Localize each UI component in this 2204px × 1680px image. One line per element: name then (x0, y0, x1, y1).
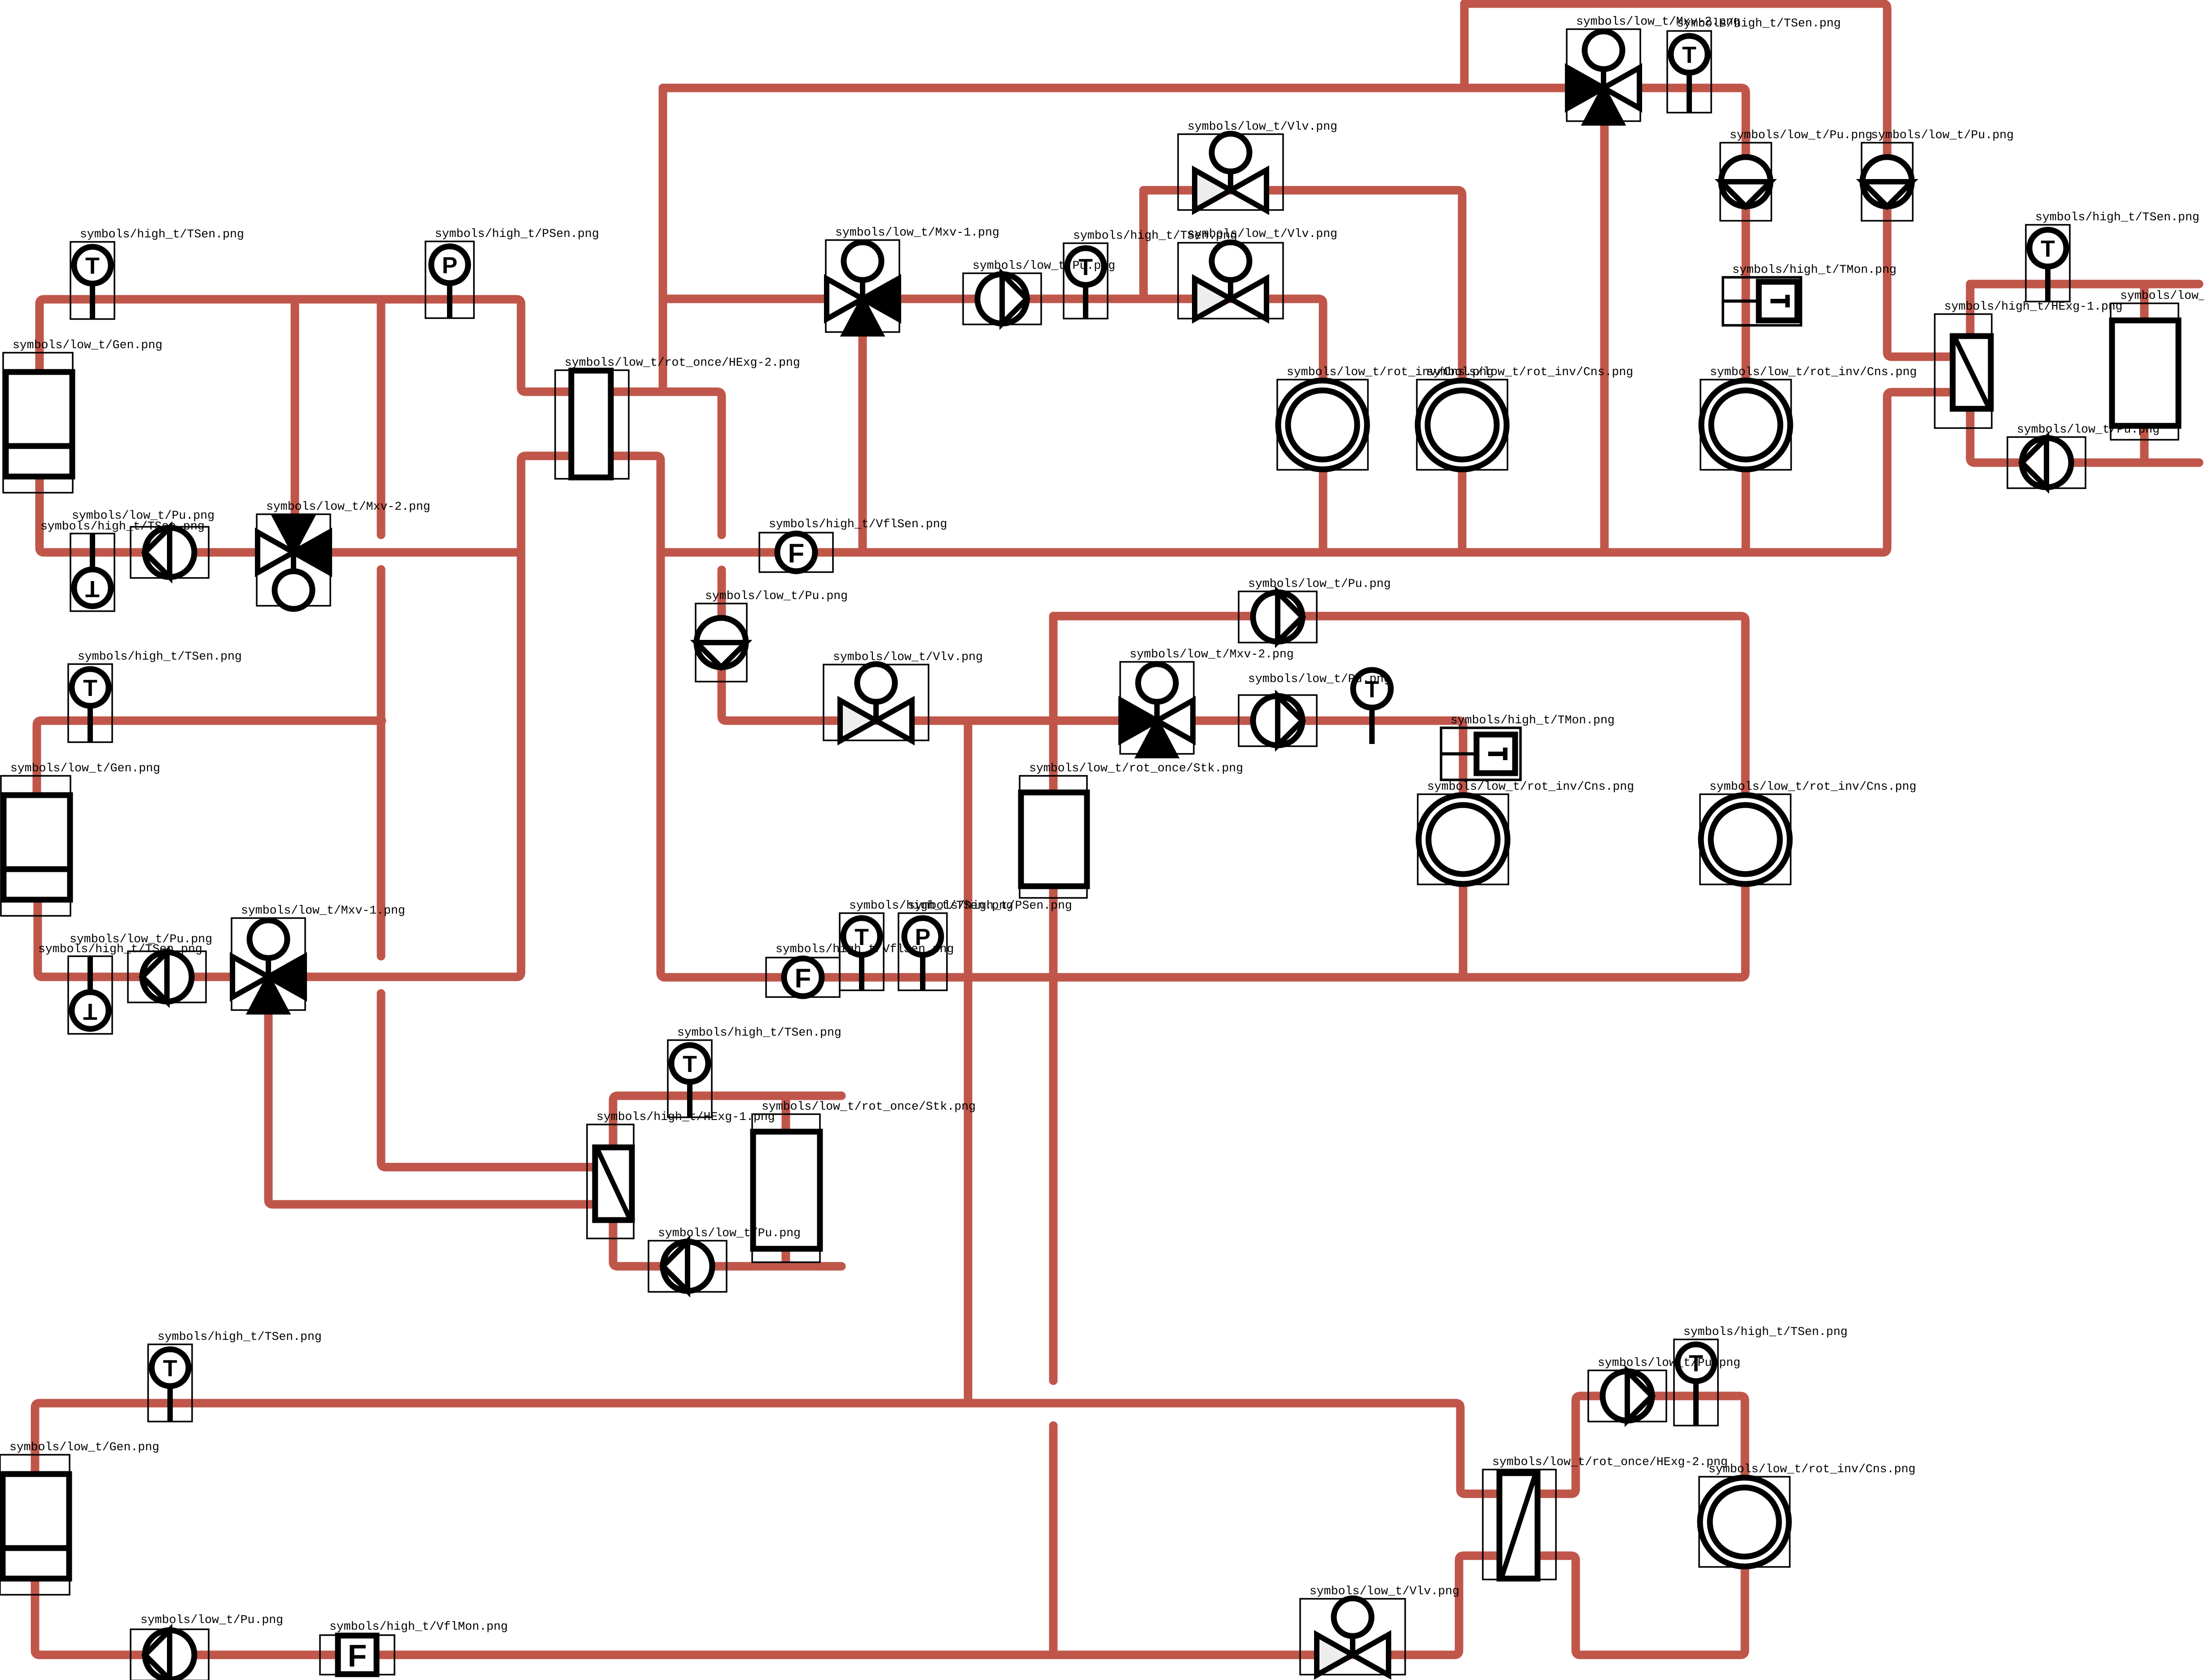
heat exchanger HExg1-1 (1935, 314, 1992, 428)
svg-text:symbols/low_t/Mxv-2.png: symbols/low_t/Mxv-2.png (1130, 647, 1294, 661)
svg-text:T: T (1682, 42, 1696, 68)
heat exchanger HExg2-2 (1483, 1470, 1556, 1579)
flow sensor VflSen2 (766, 958, 840, 997)
svg-text:symbols/high_t/TSen.png: symbols/high_t/TSen.png (78, 650, 242, 663)
pump Pu3 (1720, 143, 1771, 221)
pump Pu9 label (70, 932, 212, 946)
pressure sensor PSen1 (425, 241, 474, 318)
consumer Cns1 label (1287, 365, 1494, 379)
svg-text:symbols/low_t/Mxv-1.png: symbols/low_t/Mxv-1.png (241, 904, 405, 917)
storage tank HP (2111, 303, 2178, 440)
valve Vlv1 label (1187, 120, 1337, 133)
svg-text:symbols/high_t/TSen.png: symbols/high_t/TSen.png (1683, 1325, 1848, 1339)
svg-text:symbols/low_t/rot_inv/Cns.png: symbols/low_t/rot_inv/Cns.png (1709, 1462, 1915, 1476)
svg-text:symbols/high_t/HExg-1.png: symbols/high_t/HExg-1.png (596, 1110, 775, 1124)
svg-text:symbols/low_t/rot_once/Stk.png: symbols/low_t/rot_once/Stk.png (762, 1100, 976, 1113)
consumer Cns2 (1417, 380, 1507, 470)
temperature sensor TSen2 (1064, 243, 1108, 319)
temperature sensor TSen inverted 2 (68, 956, 112, 1034)
temperature sensor TSen8 label (158, 1330, 322, 1343)
pipe mxv2-1 top feed (291, 299, 299, 516)
valve Vlv4 label (1310, 1584, 1459, 1598)
temperature sensor TSen inverted 2 label (38, 942, 202, 956)
mixing valve Mxv2-top (1567, 29, 1640, 123)
pipe stk2 top stub (782, 1096, 790, 1135)
pump Pu6 (696, 604, 747, 682)
temperature sensor TSen4 label (2035, 210, 2200, 224)
pipe gen1 top loop to hexg2-1 upper (39, 299, 722, 535)
consumer Cns3 (1418, 794, 1508, 884)
pipe mxv1-2 bottom to hexg1-2 (268, 1008, 610, 1204)
svg-text:symbols/low_t/Pu.png: symbols/low_t/Pu.png (1598, 1356, 1740, 1369)
pipe stk2 bottom stub (782, 1245, 790, 1266)
pipe hexg2-2 upper right to cns6 top (1529, 1396, 1745, 1522)
generator Gen1 (3, 353, 73, 493)
pump Pu3 label (1730, 128, 1872, 142)
flow sensor VflSen1 label (769, 517, 947, 531)
pipe vlv1 drop x2548 (1139, 190, 1148, 299)
pump Pu2 label (973, 259, 1115, 272)
pump Pu11 label (140, 1613, 283, 1627)
svg-text:symbols/low_t/rot_once/HExg-2.: symbols/low_t/rot_once/HExg-2.png (565, 356, 800, 369)
temperature sensor TSen3 (1667, 31, 1711, 113)
svg-text:T: T (85, 576, 100, 602)
temperature monitor TMon2 label (1450, 713, 1615, 727)
svg-text:symbols/low_t/Mxv-1.png: symbols/low_t/Mxv-1.png (835, 226, 999, 239)
svg-text:symbols/high_t/VflMon.png: symbols/high_t/VflMon.png (329, 1620, 508, 1633)
pump Pu2 (963, 273, 1041, 324)
pipe stk1 drop upper (1049, 616, 1058, 1381)
pipe hp tank bottom stub (2140, 423, 2149, 463)
pipe hexg1-1 top line y633 (1970, 280, 2199, 289)
heat exchanger HExg2-1 (555, 370, 629, 479)
valve Vlv2 (1178, 242, 1283, 319)
temperature sensor TSen inverted 1 (70, 534, 114, 611)
svg-text:symbols/low_t/Pu.png: symbols/low_t/Pu.png (1871, 128, 2014, 142)
mixing valve Mxv1-1 (826, 240, 899, 334)
temperature sensor TSen4 (2026, 225, 2070, 302)
mixing valve Mxv1-2 label (241, 904, 405, 917)
pipe vertical x1477 (659, 88, 667, 392)
heat exchanger HExg1-1 label (1944, 300, 2123, 313)
pressure sensor PSen1 label (435, 227, 599, 241)
heat exchanger HExg1-2 (587, 1124, 634, 1238)
pump Pu12 label (1598, 1356, 1740, 1369)
svg-text:symbols/high_t/VflSen.png: symbols/high_t/VflSen.png (776, 942, 954, 956)
consumer Cns3 label (1427, 780, 1634, 793)
generator Gen1 label (13, 338, 162, 352)
pipe gen1 bottom to mxv2-1 line (39, 477, 520, 552)
generator Gen2 (1, 776, 70, 916)
svg-text:F: F (795, 963, 811, 993)
pump Pu10 (648, 1241, 727, 1292)
pipe gen2 top line y1606 (37, 721, 382, 795)
pump Pu6 label (705, 589, 848, 603)
pump Pu5 (2007, 437, 2086, 488)
pipe drop x2157 (964, 721, 973, 1403)
pump Pu1 (131, 527, 209, 578)
temperature sensor TSen7 (668, 1040, 712, 1117)
svg-text:symbols/low_t/rot_once/Stk.png: symbols/low_t/rot_once/Stk.png (2120, 289, 2204, 302)
svg-text:symbols/high_t/TMon.png: symbols/high_t/TMon.png (1450, 713, 1615, 727)
pump Pu12 (1588, 1370, 1666, 1422)
svg-text:symbols/low_t/Pu.png: symbols/low_t/Pu.png (70, 932, 212, 946)
svg-text:symbols/low_t/rot_inv/Cns.png: symbols/low_t/rot_inv/Cns.png (1427, 780, 1634, 793)
temperature sensor TSen7 label (677, 1026, 841, 1039)
pipe hexg1-1 bottom line y1031 (1970, 406, 2199, 463)
svg-text:symbols/low_t/rot_inv/Cns.png: symbols/low_t/rot_inv/Cns.png (1709, 780, 1916, 793)
svg-text:symbols/low_t/Pu.png: symbols/low_t/Pu.png (1248, 577, 1391, 591)
svg-text:symbols/high_t/TSen.png: symbols/high_t/TSen.png (158, 1330, 322, 1343)
temperature sensor bare (1353, 670, 1391, 744)
flow sensor VflSen2 label (776, 942, 954, 956)
pipe main header y1231 to hexg1-1 lower port (661, 392, 1961, 552)
valve Vlv3 label (833, 650, 983, 664)
svg-text:symbols/high_t/HExg-1.png: symbols/high_t/HExg-1.png (1944, 300, 2123, 313)
svg-text:symbols/low_t/rot_once/Stk.png: symbols/low_t/rot_once/Stk.png (1029, 761, 1243, 775)
svg-text:symbols/low_t/Vlv.png: symbols/low_t/Vlv.png (1187, 120, 1337, 133)
pump Pu4 (1862, 143, 1913, 221)
temperature monitor TMon2 (1441, 728, 1520, 780)
svg-text:symbols/low_t/Pu.png: symbols/low_t/Pu.png (72, 509, 215, 522)
temperature sensor TSen8 (148, 1344, 192, 1422)
temperature sensor TSen1 label (80, 227, 244, 241)
consumer Cns5 (1700, 794, 1791, 884)
temperature monitor TMon1 label (1732, 263, 1897, 276)
pump Pu8 label (1248, 672, 1391, 686)
temperature sensor TSen9 (1674, 1339, 1718, 1426)
valve Vlv3 (824, 664, 929, 741)
temperature sensor TSen9 label (1683, 1325, 1848, 1339)
heat exchanger HExg1-2 label (596, 1110, 775, 1124)
svg-text:symbols/high_t/PSen.png: symbols/high_t/PSen.png (908, 899, 1072, 912)
temperature sensor TSen5 label (78, 650, 242, 663)
svg-text:symbols/low_t/Vlv.png: symbols/low_t/Vlv.png (1310, 1584, 1459, 1598)
pump Pu4 label (1871, 128, 2014, 142)
pipe gen3 top loop y3127 (35, 1403, 1508, 1494)
storage tank Stk1 label (1029, 761, 1243, 775)
pipe stk1 drop lower (1049, 1426, 1058, 1655)
mixing valve Mxv1-2 (232, 918, 305, 1012)
svg-text:symbols/high_t/TSen.png: symbols/high_t/TSen.png (80, 227, 244, 241)
mixing valve Mxv2-1 (257, 514, 330, 609)
temperature sensor TSen6 label (849, 899, 1013, 912)
temperature sensor TSen1 (70, 242, 114, 319)
pipe hexg1-1 top port (1966, 284, 1975, 339)
storage tank Stk1 (1020, 776, 1087, 898)
pump Pu7 label (1248, 577, 1391, 591)
svg-text:T: T (83, 998, 97, 1024)
temperature sensor TSen5 (68, 664, 112, 742)
svg-text:symbols/low_t/Mxv-2.png: symbols/low_t/Mxv-2.png (266, 500, 430, 513)
temperature monitor TMon1 (1723, 277, 1801, 325)
mixing valve Mxv1-1 label (835, 226, 999, 239)
svg-text:symbols/low_t/Gen.png: symbols/low_t/Gen.png (10, 761, 160, 775)
mixing valve Mxv2-2 label (1130, 647, 1294, 661)
valve Vlv2 label (1187, 227, 1337, 241)
svg-text:symbols/low_t/Pu.png: symbols/low_t/Pu.png (1248, 672, 1391, 686)
svg-text:symbols/low_t/Gen.png: symbols/low_t/Gen.png (9, 1440, 159, 1454)
pipe long drop x849 lower to hexg1-2 (381, 993, 610, 1167)
storage tank HP label (2120, 289, 2204, 302)
pipe hexg2-2 lower right to cns6 bottom (1529, 1522, 1745, 1655)
svg-text:symbols/low_t/Pu.png: symbols/low_t/Pu.png (658, 1226, 801, 1240)
pressure sensor PSen2 (898, 913, 947, 990)
svg-text:symbols/low_t/Pu.png: symbols/low_t/Pu.png (705, 589, 848, 603)
pipe hexg2-1 lower port west loop (38, 456, 1745, 977)
svg-text:symbols/high_t/VflSen.png: symbols/high_t/VflSen.png (769, 517, 947, 531)
consumer Cns5 label (1709, 780, 1916, 793)
pipe mxv1-1 bottom drop (859, 332, 867, 552)
consumer Cns6 (1699, 1477, 1790, 1567)
mixing valve Mxv2-1 label (266, 500, 430, 513)
temperature sensor TSen2 label (1073, 229, 1237, 242)
flow sensor VflSen1 (759, 533, 833, 572)
heat exchanger HExg2-2 label (1492, 1455, 1728, 1469)
temperature sensor TSen3 label (1677, 17, 1841, 30)
generator Gen3 (0, 1455, 70, 1595)
pump Pu1 label (72, 509, 215, 522)
pipe top edge header y8 (1464, 4, 1961, 357)
pipe mxv2-top drop x3575 (1600, 124, 1609, 552)
svg-text:symbols/low_t/Pu.png: symbols/low_t/Pu.png (2017, 423, 2160, 436)
svg-text:symbols/high_t/TSen.png: symbols/high_t/TSen.png (677, 1026, 841, 1039)
pump Pu7 (1239, 591, 1317, 643)
flow monitor VflMon (320, 1635, 394, 1675)
pipe vlv1 line y424 to cns2 (1144, 190, 1462, 552)
svg-text:symbols/high_t/TMon.png: symbols/high_t/TMon.png (1732, 263, 1897, 276)
generator Gen3 label (9, 1440, 159, 1454)
consumer Cns1 (1277, 380, 1368, 470)
pump Pu11 (131, 1629, 209, 1680)
pipe long drop x849 middle (377, 569, 386, 956)
svg-text:T: T (163, 1356, 177, 1382)
pipe riser x3263 (1460, 4, 1469, 88)
svg-text:symbols/high_t/PSen.png: symbols/high_t/PSen.png (435, 227, 599, 241)
consumer Cns4 label (1710, 365, 1917, 379)
svg-text:F: F (788, 538, 805, 569)
svg-text:symbols/high_t/TSen.png: symbols/high_t/TSen.png (1677, 17, 1841, 30)
svg-text:symbols/low_t/Vlv.png: symbols/low_t/Vlv.png (833, 650, 983, 664)
svg-text:symbols/low_t/Gen.png: symbols/low_t/Gen.png (13, 338, 162, 352)
pipe hexg2-1 right vertical lower segment to mid-loop (722, 570, 1463, 977)
pump Pu10 label (658, 1226, 801, 1240)
flow monitor VflMon label (329, 1620, 508, 1633)
heat exchanger HExg2-1 label (565, 356, 800, 369)
consumer Cns4 (1700, 380, 1791, 470)
svg-text:symbols/low_t/rot_inv/Cns.png: symbols/low_t/rot_inv/Cns.png (1710, 365, 1917, 379)
valve Vlv1 (1178, 134, 1283, 210)
pipe hp tank top stub (2140, 284, 2149, 323)
generator Gen2 label (10, 761, 160, 775)
svg-text:symbols/low_t/Pu.png: symbols/low_t/Pu.png (973, 259, 1115, 272)
svg-text:symbols/low_t/rot_inv/Cns.png: symbols/low_t/rot_inv/Cns.png (1426, 365, 1633, 379)
pressure sensor PSen2 label (908, 899, 1072, 912)
temperature sensor TSen6 (840, 913, 884, 990)
pump Pu9 (128, 951, 206, 1002)
temperature sensor TSen inverted 1 label (40, 520, 205, 533)
svg-text:T: T (683, 1051, 697, 1077)
storage tank Stk2 (752, 1114, 820, 1262)
svg-text:symbols/low_t/Pu.png: symbols/low_t/Pu.png (140, 1613, 283, 1627)
mixing valve Mxv2-top label (1576, 15, 1740, 28)
consumer Cns6 label (1709, 1462, 1915, 1476)
pipe long drop x849 upper (377, 299, 386, 535)
pump Pu5 label (2017, 423, 2160, 436)
svg-text:symbols/low_t/Vlv.png: symbols/low_t/Vlv.png (1187, 227, 1337, 241)
svg-text:T: T (85, 253, 100, 279)
consumer Cns2 label (1426, 365, 1633, 379)
pipe hexg1-2 secondary loop (613, 1096, 841, 1266)
svg-text:T: T (2041, 236, 2055, 262)
storage tank Stk2 label (762, 1100, 976, 1113)
svg-text:P: P (442, 253, 458, 279)
pump Pu8 (1239, 695, 1317, 746)
mixing valve Mxv2-2 (1120, 662, 1194, 756)
svg-text:symbols/high_t/TSen.png: symbols/high_t/TSen.png (2035, 210, 2200, 224)
pipe mxv1-1 line y666 to cns1 (663, 299, 1323, 552)
valve Vlv4 (1300, 1598, 1405, 1675)
pipe gen3 bottom y3688 to hexg2-2 (35, 1556, 1508, 1655)
svg-text:F: F (348, 1638, 367, 1673)
svg-text:symbols/low_t/rot_once/HExg-2.: symbols/low_t/rot_once/HExg-2.png (1492, 1455, 1728, 1469)
svg-text:symbols/low_t/Pu.png: symbols/low_t/Pu.png (1730, 128, 1872, 142)
pipe top header y196 down through pump to cns4 (663, 88, 1746, 552)
svg-text:T: T (83, 675, 97, 701)
